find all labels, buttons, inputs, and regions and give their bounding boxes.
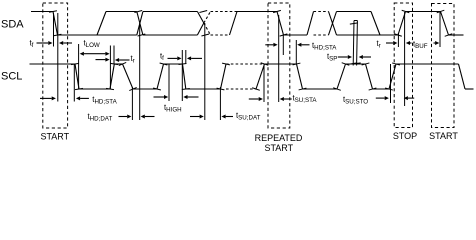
svg-text:tf: tf [160, 52, 164, 63]
svg-text:tSU;DAT: tSU;DAT [236, 111, 261, 122]
tSP label (spike suppression) [327, 52, 337, 63]
extension line SCL rise4 (tSUSTA left) [263, 64, 265, 102]
tSUSTA arrows [249, 97, 292, 101]
tBUF arrow [434, 41, 440, 45]
tr arrows [96, 58, 130, 62]
tf scl arrows [168, 56, 203, 60]
extension line SCL rise6 (tSUSTO left) [390, 64, 392, 103]
second START condition box (dashed) [432, 4, 455, 128]
svg-text:tr: tr [377, 39, 381, 50]
tHDDAT label (data hold) [88, 112, 113, 123]
tf label (SCL fall time) [160, 52, 164, 63]
START condition box (dashed) [43, 3, 68, 128]
svg-text:tr: tr [131, 54, 135, 65]
REPEATED START condition box (dashed) [268, 3, 290, 128]
START text [40, 132, 69, 142]
tHDSTA2 arrows [265, 43, 309, 47]
svg-text:START: START [264, 143, 293, 153]
extension line SCL rise2 end (tHIGH left) [168, 64, 170, 101]
tLOW span arrow [80, 52, 110, 56]
SCL waveform [30, 62, 474, 90]
extension line SDA STOP rise start [397, 33, 399, 47]
svg-text:REPEATED: REPEATED [255, 133, 303, 143]
svg-text:tSU;STA: tSU;STA [293, 94, 318, 105]
svg-text:tLOW: tLOW [84, 39, 100, 50]
REPEATED text [255, 133, 303, 143]
tSUSTO arrows [376, 96, 414, 100]
extension line SDA crossover X2 [204, 23, 206, 120]
tHIGH label (SCL high period) [164, 103, 182, 114]
tSUSTA label (repeated START setup) [293, 94, 318, 105]
SDA waveform [31, 10, 464, 65]
tHDDAT arrows [119, 115, 155, 119]
svg-text:tHIGH: tHIGH [164, 103, 182, 114]
tr label (SCL rise time) [131, 54, 135, 65]
tHIGH arrows [154, 95, 199, 99]
extension line SCL fall4 start [295, 40, 297, 64]
extension line SDA repeated-START fall top [278, 15, 280, 102]
svg-text:SDA: SDA [1, 19, 24, 31]
svg-text:START: START [429, 131, 458, 141]
extension line SDA START fall bottom [57, 13, 59, 102]
extension line SCL rise1 end [113, 46, 115, 64]
second START text [429, 131, 458, 141]
REPEATED START text line2 [264, 143, 293, 153]
SDA signal label [1, 19, 24, 31]
extension line SCL fall1 bottom [78, 44, 80, 89]
svg-text:SCL: SCL [1, 71, 22, 83]
svg-text:START: START [40, 132, 69, 142]
extension line SCL fall1 top [73, 64, 75, 102]
extension line SCL fall2 bottom [131, 87, 133, 120]
tSUDAT arrows [190, 115, 233, 119]
svg-text:STOP: STOP [393, 131, 417, 141]
extension line SDA crossover X1 [139, 23, 141, 120]
tSUSTO label (STOP setup) [343, 95, 368, 106]
extension line SDA START fall top [53, 13, 55, 47]
tSP arrows [338, 55, 371, 59]
svg-text:tHD;STA: tHD;STA [92, 95, 117, 106]
svg-text:tSU;STO: tSU;STO [343, 95, 368, 106]
extension line SCL fall3 start [181, 50, 183, 101]
extension line SCL fall3 end [185, 50, 187, 64]
tr2 arrows [386, 41, 412, 45]
extension line SCL rise3 start (tSUDAT right) [219, 87, 221, 120]
tf arrows [37, 41, 73, 45]
svg-text:tSP: tSP [327, 52, 337, 63]
tHDSTA1 arrows [40, 96, 89, 100]
svg-text:tBUF: tBUF [413, 40, 428, 51]
extension line SDA second START fall [439, 12, 441, 47]
svg-text:tf: tf [30, 39, 34, 50]
tSUDAT label (data setup) [236, 111, 261, 122]
svg-text:tHD;STA: tHD;STA [312, 41, 337, 52]
tr label (SDA rise time, STOP) [377, 39, 381, 50]
svg-text:tHD;DAT: tHD;DAT [88, 112, 113, 123]
extension line SCL rise1 start [109, 46, 111, 89]
extension line SDA repeated-START fall bottom [282, 35, 284, 56]
SCL signal label [1, 71, 22, 83]
tBUF label (bus free time) [413, 40, 428, 51]
extension line SDA STOP rise end [404, 12, 406, 106]
tHDSTA label (repeated start hold) [312, 41, 337, 52]
tHDSTA label (START hold time) [92, 95, 117, 106]
STOP condition box (dashed) [394, 3, 412, 128]
tf label (SDA fall time, START) [30, 39, 34, 50]
tLOW label [84, 39, 100, 50]
STOP text [393, 131, 417, 141]
